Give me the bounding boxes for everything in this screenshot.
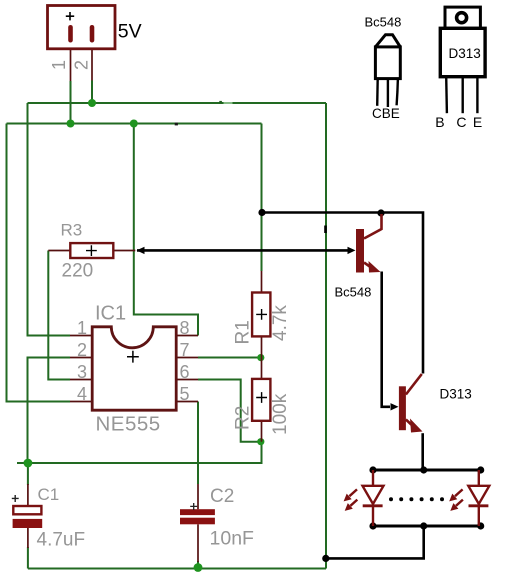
svg-text:R2: R2 [233,406,254,430]
svg-text:4.7uF: 4.7uF [37,530,86,551]
svg-text:C: C [456,114,466,130]
svg-text:D313: D313 [449,46,481,61]
svg-text:Bc548: Bc548 [365,15,402,30]
svg-text:E: E [473,114,482,130]
svg-text:4: 4 [77,384,87,404]
svg-text:1: 1 [49,60,69,70]
svg-text:4.7k: 4.7k [270,305,291,341]
svg-text:R3: R3 [61,220,83,239]
svg-text:B: B [435,114,444,130]
svg-text:6: 6 [180,362,190,382]
svg-text:Bc548: Bc548 [335,285,372,300]
svg-text:3: 3 [77,362,87,382]
svg-text:5: 5 [180,384,190,404]
svg-text:1: 1 [77,318,87,338]
svg-text:7: 7 [180,340,190,360]
svg-text:2: 2 [77,340,87,360]
svg-text:C2: C2 [210,486,234,507]
svg-text:100k: 100k [270,393,291,435]
svg-text:2: 2 [72,60,92,70]
svg-text:R1: R1 [232,320,253,344]
svg-text:10nF: 10nF [210,528,255,550]
svg-text:D313: D313 [440,387,472,402]
svg-text:C1: C1 [38,485,60,504]
svg-text:CBE: CBE [372,106,400,121]
svg-text:IC1: IC1 [95,303,126,325]
svg-text:8: 8 [180,318,190,338]
svg-text:5V: 5V [118,21,142,43]
svg-text:220: 220 [62,261,94,282]
svg-text:NE555: NE555 [96,413,161,436]
